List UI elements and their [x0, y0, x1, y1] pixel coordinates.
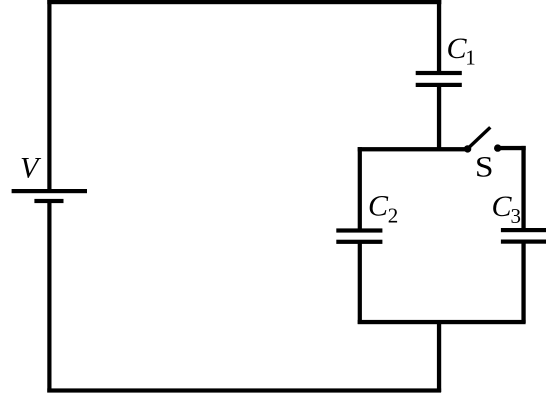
- wire left vertical upper: [47, 0, 51, 191]
- wire right vertical mid: [437, 85, 441, 151]
- switch S right contact dot: [494, 144, 501, 151]
- battery V short plate: [34, 199, 63, 203]
- svg-text:V: V: [20, 152, 42, 185]
- capacitor C1 bottom plate: [416, 83, 462, 87]
- wire inner-loop bottom horizontal: [358, 320, 526, 324]
- wire inner-loop top horizontal: [358, 147, 468, 151]
- wire bottom horizontal: [47, 388, 441, 392]
- battery V long plate: [12, 189, 87, 193]
- wire inner-loop left vertical lower: [358, 241, 362, 324]
- wire switch to C3 corner: [498, 146, 526, 150]
- switch S blade: [467, 127, 491, 149]
- wire C3 vertical lower: [521, 241, 525, 323]
- svg-text:1: 1: [465, 46, 476, 70]
- capacitor C1 top plate: [416, 71, 462, 75]
- capacitor C3 bottom plate: [501, 240, 546, 244]
- svg-text:C: C: [368, 190, 389, 223]
- svg-text:3: 3: [511, 204, 522, 228]
- capacitor C2 top plate: [336, 228, 382, 232]
- capacitor C3 top plate: [501, 228, 546, 232]
- svg-text:C: C: [492, 190, 513, 223]
- switch S left contact dot: [464, 145, 471, 152]
- svg-text:2: 2: [388, 203, 399, 227]
- wire left vertical lower: [47, 201, 51, 393]
- wire center vertical to bottom: [437, 322, 441, 392]
- wire top horizontal: [47, 0, 441, 4]
- capacitor C2 bottom plate: [336, 240, 382, 244]
- wire inner-loop left vertical upper: [358, 147, 362, 231]
- wire C3 vertical upper: [521, 146, 525, 231]
- wire right vertical upper: [437, 0, 441, 73]
- svg-text:S: S: [475, 150, 494, 183]
